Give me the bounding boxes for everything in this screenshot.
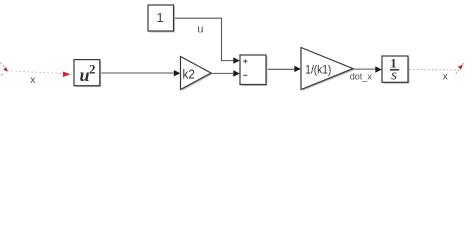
svg-text:x: x	[30, 74, 36, 86]
svg-text:1/(k1): 1/(k1)	[305, 62, 331, 76]
svg-text:u: u	[197, 24, 203, 36]
svg-text:k2: k2	[183, 67, 195, 82]
svg-text:x: x	[443, 71, 448, 82]
svg-text:1: 1	[156, 10, 163, 25]
svg-text:2: 2	[89, 61, 96, 76]
svg-text:dot_x: dot_x	[350, 71, 373, 81]
svg-text:u: u	[80, 65, 90, 85]
svg-text:s: s	[391, 68, 397, 84]
